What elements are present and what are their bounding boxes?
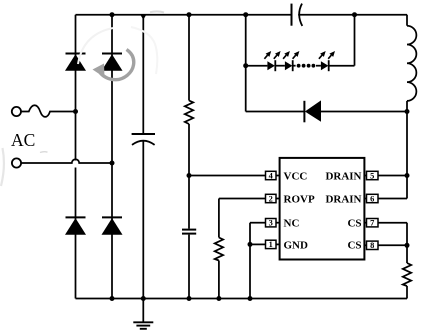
inductor L1 (407, 15, 416, 199)
diode D5 freewheel (304, 100, 321, 122)
LED3 arrows (319, 51, 335, 59)
annotation gray arrow (93, 50, 134, 80)
resistor R3 (403, 263, 411, 286)
wire pin7 to CS column (378, 223, 407, 299)
wire pin5 to drain column (378, 175, 407, 177)
svg-text:AC: AC (11, 130, 35, 150)
AC terminal bottom (12, 158, 21, 167)
LED LED3 (321, 60, 329, 71)
pin 6 (364, 194, 378, 203)
wire VCC column (188, 15, 190, 299)
svg-text:8: 8 (370, 241, 374, 250)
svg-text:1: 1 (269, 240, 273, 249)
LED2 arrows (283, 51, 299, 59)
node top rail / leg2 (110, 12, 115, 17)
svg-text:CS: CS (347, 218, 361, 230)
node LED string / top rail (352, 12, 357, 17)
wire top rail right segment (298, 14, 407, 16)
smudge artifact top rail (150, 11, 164, 12)
diode D2 (102, 54, 123, 71)
wire top rail left segment (76, 14, 292, 16)
wire VCC to pin 4 (189, 175, 266, 177)
svg-text:DRAIN: DRAIN (325, 194, 361, 206)
AC terminal top (12, 107, 21, 116)
node R2 / bottom rail (216, 296, 221, 301)
resistor R2 (215, 238, 223, 261)
LED1 arrows (264, 51, 280, 59)
node top rail / LED branch (243, 12, 248, 17)
pin 3 (266, 219, 280, 228)
capacitor C3 series top (292, 4, 303, 26)
pin 8 (364, 241, 378, 250)
svg-text:CS: CS (347, 239, 361, 251)
node junction AC-live to bridge (73, 109, 78, 114)
ground (133, 299, 153, 329)
node AC-neutral to bridge (110, 161, 115, 166)
node top rail / R1 (187, 12, 192, 17)
node drain (405, 173, 410, 178)
annotation faint arc (78, 27, 157, 74)
diode D4 (102, 217, 123, 234)
node C1 / bottom rail (141, 296, 146, 301)
wire left column (bridge leg 1) (75, 15, 77, 299)
pin 5 (364, 171, 378, 180)
capacitor C2 (182, 230, 196, 234)
wire bottom rail (76, 298, 408, 300)
pin 2 (266, 194, 280, 203)
node GND column / bottom rail (248, 296, 253, 301)
svg-text:VCC: VCC (284, 171, 308, 183)
node pin1/pin3 join (248, 242, 253, 247)
node C1 top tick (141, 15, 146, 19)
svg-text:2: 2 (269, 194, 273, 203)
wire LED string (246, 15, 355, 66)
diode D1 (65, 54, 86, 71)
svg-text:ROVP: ROVP (284, 194, 315, 206)
wire NC pin3 down to GND (250, 223, 266, 299)
wire pin8 to CS node (378, 244, 407, 246)
pin 7 (364, 219, 378, 228)
capacitor C1 plates (132, 134, 155, 145)
node VCC (187, 173, 192, 178)
svg-text:3: 3 (269, 219, 273, 228)
fuse F1 (21, 105, 75, 117)
wire ROVP to pin 2 (219, 199, 266, 299)
wire AC neutral with hop over leg1 (21, 159, 112, 163)
node C2 / bottom rail (187, 296, 192, 301)
capacitor C1 electrolytic column wire (142, 15, 144, 299)
svg-text:6: 6 (370, 194, 374, 203)
LED LED1 (267, 60, 275, 71)
svg-text:NC: NC (284, 218, 300, 230)
node LED string tap (243, 63, 248, 68)
node CS (405, 243, 410, 248)
wire bridge leg 2 (111, 15, 113, 299)
node D5 / drain column (405, 109, 410, 114)
svg-text:GND: GND (284, 239, 309, 251)
svg-text:7: 7 (370, 219, 374, 228)
wire pin6 to drain column (378, 198, 407, 200)
wire LED branch column (246, 15, 407, 112)
IC U1 body (280, 158, 365, 260)
pin 4 (266, 171, 280, 180)
diode D3 (65, 217, 86, 234)
node leg2 / bottom rail (110, 296, 115, 301)
svg-text:5: 5 (370, 171, 374, 180)
edge artifact left (1, 148, 4, 186)
pin 1 (266, 240, 280, 249)
smudge artifact (40, 151, 48, 154)
LED LED2 (285, 60, 293, 71)
svg-text:DRAIN: DRAIN (325, 171, 361, 183)
resistor R1 (185, 101, 193, 125)
ellipsis dots (297, 64, 316, 68)
